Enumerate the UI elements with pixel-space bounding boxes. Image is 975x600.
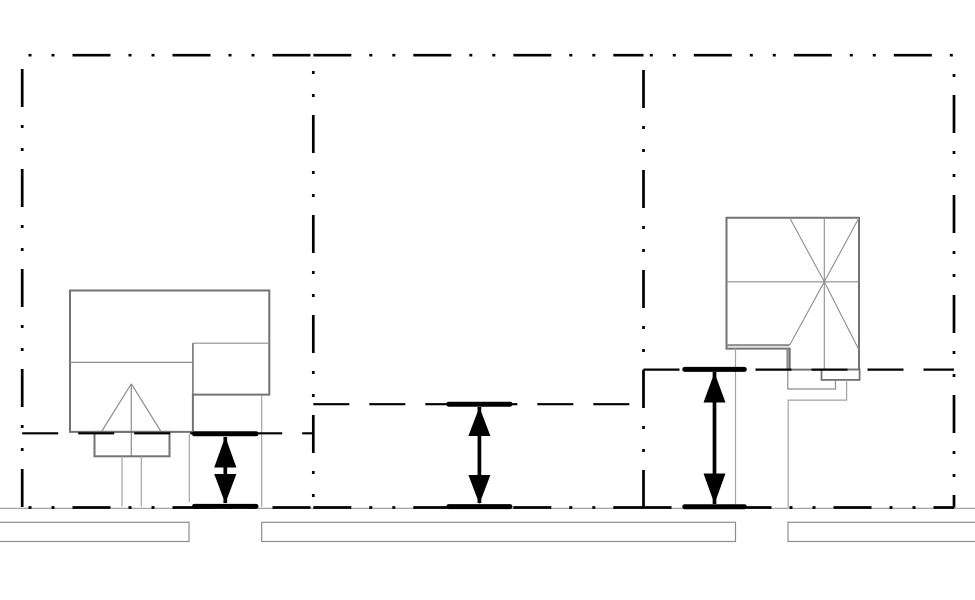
setback line lot 1 (22, 432, 313, 434)
dimension arrow lot 2 bottom bar (449, 504, 510, 509)
dimension arrow lot 2 lower head (468, 475, 490, 504)
house A walkway left edge (121, 456, 123, 506)
house B roof hip SE (824, 282, 859, 350)
house A walkway right edge (140, 456, 142, 506)
house B lower wall double line vertical (786, 349, 788, 370)
dimension arrow lot 3 top bar (685, 367, 745, 372)
street boundary bottom lot 1 (22, 506, 313, 509)
dimension arrow lot 3 upper head (704, 373, 726, 403)
dimension arrow lot 1 top bar (195, 431, 257, 436)
lot line 2 (642, 55, 645, 507)
house B roof hip NE (824, 218, 859, 282)
lot line 1 (312, 55, 315, 507)
house B front porch step (822, 370, 860, 380)
house A interior ridge line (70, 361, 193, 363)
house B roof hip NW (790, 218, 825, 282)
house B roof hip SW (790, 282, 825, 345)
dimension arrow lot 2 top bar (449, 402, 510, 407)
street boundary bottom lot 2 (313, 506, 643, 509)
house B driveway left edge (735, 349, 737, 508)
street edge line (continuous) (0, 507, 975, 509)
house B lower wall double line (727, 344, 790, 346)
property boundary top lot 1 (22, 54, 313, 57)
property boundary top lot 3 (644, 54, 955, 57)
property boundary top lot 2 (313, 54, 643, 57)
house B step outline lower (788, 380, 846, 507)
dimension arrow lot 3 shaft (713, 372, 717, 504)
sidewalk segment right (788, 522, 975, 541)
dimension arrow lot 1 lower head (214, 474, 236, 504)
dimension arrow lot 3 bottom bar (685, 504, 745, 509)
house A bay gable right slope (131, 384, 161, 432)
property boundary right (953, 55, 956, 507)
house A garage top edge (193, 342, 269, 344)
street boundary bottom lot 3 (644, 506, 955, 509)
house A bay gable left slope (101, 384, 131, 432)
setback line lot 3 (644, 369, 955, 371)
house B roof vertical ridge (823, 218, 825, 370)
house A porch (95, 432, 170, 456)
dimension arrow lot 3 lower head (704, 474, 726, 505)
property boundary left (21, 55, 24, 507)
dimension arrow lot 2 upper head (468, 407, 490, 436)
house A bay centre line (130, 384, 132, 457)
dimension arrow lot 1 bottom bar (195, 504, 257, 509)
house A footprint outline (70, 291, 269, 432)
house B roof horizontal ridge (727, 281, 860, 283)
house A driveway right edge (261, 396, 263, 507)
house B footprint outline (727, 218, 860, 370)
dimension arrow lot 1 upper head (214, 437, 236, 468)
house B step outline upper (788, 370, 836, 389)
setback step connector (642, 370, 644, 405)
sidewalk segment left (0, 522, 189, 541)
house A garage left edge (192, 343, 194, 394)
setback line lot 2 (313, 403, 643, 405)
dimension arrow lot 1 shaft (223, 437, 227, 503)
sidewalk segment middle (262, 522, 736, 541)
dimension arrow lot 2 shaft (478, 407, 482, 503)
house A driveway left edge (188, 434, 190, 502)
